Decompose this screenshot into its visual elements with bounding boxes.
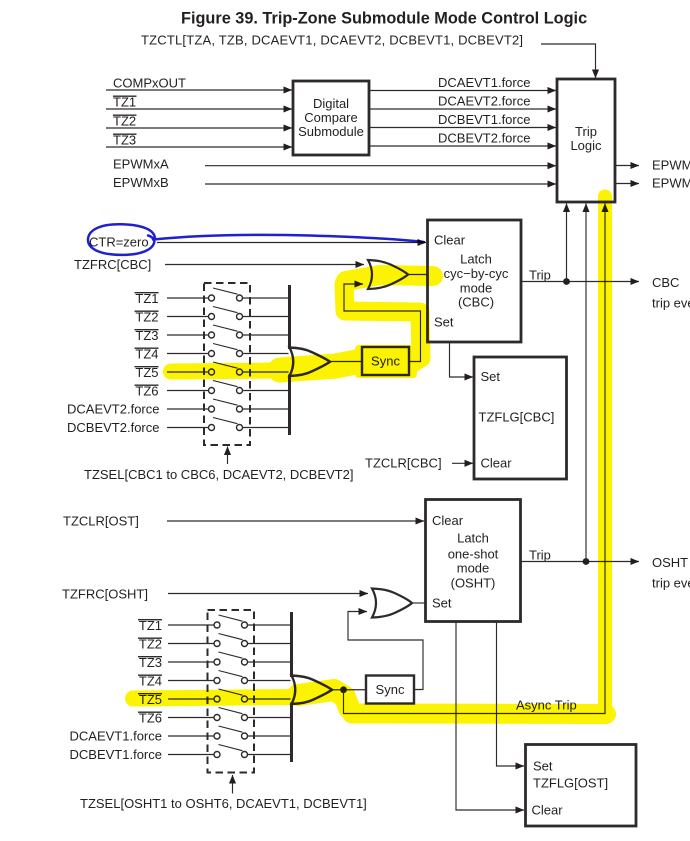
svg-text:Figure 39. Trip-Zone Submodule: Figure 39. Trip-Zone Submodule Mode Cont… (181, 10, 587, 28)
wire DCAEVT2.force (369, 108, 556, 110)
switch CBC TZ5 (167, 362, 289, 375)
highlight CBC OR gate through-path (280, 362, 356, 370)
label TZ1 cbc (135, 291, 159, 306)
label TZ2 osht (138, 636, 162, 651)
switch OSHT TZ4 (168, 671, 291, 684)
svg-text:trip event: trip event (652, 576, 690, 591)
wire TZ2 in (106, 127, 292, 129)
label CBC trip event (652, 275, 690, 311)
svg-text:one-shot: one-shot (448, 547, 499, 562)
bus CBC input bar lower (288, 375, 291, 436)
highlight OSHT gate junction blob (298, 690, 349, 708)
switch CBC DCBEVT-force (167, 418, 289, 431)
label TZ3 in (113, 132, 137, 147)
wire COMPxOUT (106, 89, 292, 91)
label TZ4 osht (138, 673, 162, 688)
svg-text:mode: mode (460, 281, 493, 296)
svg-text:Compare: Compare (304, 110, 357, 125)
switch CBC TZ4 (167, 344, 289, 357)
label TZ1 osht (138, 618, 162, 633)
wire TZCLR[CBC] (452, 462, 473, 464)
switch OSHT TZ3 (168, 652, 291, 665)
svg-text:Clear: Clear (434, 233, 466, 248)
wire EPWMxB in (205, 183, 556, 185)
wire EPWMxA out (615, 165, 639, 167)
wire OSHT sync feedback (348, 612, 423, 690)
label TZ1 in (113, 94, 137, 109)
block Trip Logic (557, 79, 615, 202)
svg-text:TZSEL[OSHT1 to OSHT6, DCAEVT1,: TZSEL[OSHT1 to OSHT6, DCAEVT1, DCBEVT1] (80, 796, 367, 811)
svg-text:Set: Set (434, 315, 454, 330)
pen ellipse around CTR=zero (88, 224, 155, 255)
highlight async trip vertical right side (598, 197, 612, 707)
highlight CBC TZ5 row (171, 371, 282, 372)
label TZ4 cbc (135, 346, 159, 361)
svg-text:Clear: Clear (481, 456, 513, 471)
wire OSHT trip to Trip Logic (585, 204, 587, 562)
svg-text:EPWMxB: EPWMxB (652, 176, 690, 191)
svg-text:DCAEVT2.force: DCAEVT2.force (67, 401, 159, 416)
node OSHT trip junction (583, 558, 590, 565)
label TZ2 cbc (135, 309, 159, 324)
label TZ3 osht (138, 655, 162, 670)
or-gate CBC force/sync (368, 260, 408, 289)
svg-text:TZCLR[CBC]: TZCLR[CBC] (365, 456, 442, 471)
svg-text:CTR=zero: CTR=zero (89, 235, 149, 250)
svg-text:CBC: CBC (652, 275, 679, 290)
wire TZ1 in (106, 108, 292, 110)
label TZ2 in (113, 113, 137, 128)
highlight CBC sync feedback up-path (344, 284, 421, 363)
svg-text:DCBEVT1.force: DCBEVT1.force (70, 747, 162, 762)
block Sync OSHT (366, 676, 414, 704)
svg-text:mode: mode (457, 561, 490, 576)
wire DCBEVT1.force (369, 127, 556, 129)
label TZ6 cbc (135, 383, 159, 398)
svg-text:Trip: Trip (529, 548, 551, 563)
label TZ6 osht (138, 710, 162, 725)
switch OSHT DCBEVT-force (168, 745, 291, 758)
svg-text:Latch: Latch (457, 531, 489, 546)
switch CBC DCAEVT-force (167, 399, 289, 412)
svg-text:TZFLG[OST]: TZFLG[OST] (533, 775, 608, 790)
wire CTR=zero to CBC latch Clear (157, 242, 426, 244)
switch OSHT DCAEVT-force (168, 726, 291, 739)
node CBC trip junction (563, 278, 570, 285)
switch OSHT TZ6 (168, 708, 291, 721)
svg-text:OSHT: OSHT (652, 555, 688, 570)
svg-text:trip event: trip event (652, 296, 690, 311)
svg-text:DCBEVT1.force: DCBEVT1.force (438, 112, 530, 127)
svg-text:EPWMxB: EPWMxB (113, 175, 169, 190)
bus OSHT input bar upper (290, 612, 293, 677)
wire TZSEL OSHT select arrow (232, 775, 234, 794)
wire DCBEVT2.force (369, 145, 556, 147)
highlight CBC small OR gate output (346, 275, 433, 281)
svg-text:Set: Set (432, 596, 452, 611)
wire OSHT gate to Sync (332, 689, 366, 691)
highlight OSHT TZ5 row (133, 697, 300, 699)
wire TZCLR[OST] to OSHT latch (167, 520, 424, 522)
svg-text:(OSHT): (OSHT) (451, 576, 496, 591)
wire CBC or-gate to latch (408, 274, 428, 276)
svg-text:TZCTL[TZA, TZB, DCAEVT1, DCAEV: TZCTL[TZA, TZB, DCAEVT1, DCAEVT2, DCBEVT… (141, 33, 523, 48)
bus CBC input bar upper (288, 285, 291, 349)
svg-text:EPWMxA: EPWMxA (113, 157, 169, 172)
switch CBC TZ6 (167, 381, 289, 394)
svg-text:COMPxOUT: COMPxOUT (113, 76, 186, 91)
svg-text:cyc−by-cyc: cyc−by-cyc (444, 266, 509, 281)
block TZFLG[CBC] (474, 357, 567, 479)
wire CBC sync feedback (344, 284, 421, 362)
svg-text:EPWMxA: EPWMxA (652, 158, 690, 173)
block TZFLG[OST] (526, 745, 637, 827)
wire TZFRC[CBC] to OR gate (165, 264, 364, 266)
or-gate CBC main (290, 348, 331, 377)
svg-text:DCBEVT2.force: DCBEVT2.force (67, 420, 159, 435)
label TZ5 osht (138, 692, 162, 707)
wire CBC latch Set to TZFLG (450, 342, 474, 377)
svg-text:Latch: Latch (460, 252, 492, 267)
wire EPWMxA in (205, 165, 556, 167)
svg-text:Set: Set (481, 369, 501, 384)
or-gate OSHT main (292, 676, 333, 705)
svg-text:TZSEL[CBC1 to CBC6, DCAEVT2, D: TZSEL[CBC1 to CBC6, DCAEVT2, DCBEVT2] (84, 467, 353, 482)
svg-text:Trip: Trip (529, 268, 551, 283)
label TZ3 cbc (135, 328, 159, 343)
switch CBC TZ3 (167, 325, 289, 338)
wire async trip (344, 204, 606, 714)
label TZ5 cbc (135, 365, 159, 380)
wire OSHT or-gate to latch (412, 602, 426, 604)
highlight async trip horizontal (352, 704, 606, 725)
wire DCAEVT1.force (369, 90, 556, 92)
wire EPWMxB out (615, 183, 639, 185)
wire CBC gate to Sync (330, 361, 362, 363)
block Sync CBC (362, 347, 409, 375)
wire TZSEL CBC select arrow (227, 447, 229, 465)
svg-text:DCBEVT2.force: DCBEVT2.force (438, 131, 530, 146)
svg-text:Clear: Clear (532, 802, 564, 817)
svg-text:TZFLG[CBC]: TZFLG[CBC] (479, 410, 555, 425)
or-gate OSHT force/sync (372, 589, 412, 618)
switchbank OSHT box (208, 610, 255, 773)
svg-text:TZCLR[OST]: TZCLR[OST] (63, 513, 139, 528)
wire CBC trip to Trip Logic (566, 204, 568, 282)
svg-text:Submodule: Submodule (298, 124, 364, 139)
svg-text:DCAEVT2.force: DCAEVT2.force (438, 94, 530, 109)
block Digital Compare Submodule (293, 81, 369, 155)
switch OSHT TZ2 (168, 634, 291, 647)
svg-text:Trip: Trip (575, 124, 597, 139)
bus OSHT input bar lower (290, 703, 293, 763)
switch CBC TZ1 (167, 288, 289, 301)
wire Trip CBC out (521, 281, 639, 283)
pen line CTR=zero to latch (153, 235, 424, 242)
svg-text:TZFRC[OSHT]: TZFRC[OSHT] (62, 586, 148, 601)
label OSHT trip event (652, 555, 690, 591)
wire TZCTL to Trip Logic (541, 44, 596, 78)
svg-text:Clear: Clear (432, 513, 464, 528)
svg-text:Digital: Digital (313, 96, 349, 111)
svg-text:TZFRC[CBC]: TZFRC[CBC] (74, 257, 151, 272)
latch OSHT block (426, 500, 521, 622)
svg-text:DCAEVT1.force: DCAEVT1.force (70, 728, 162, 743)
switch OSHT TZ5 (168, 689, 291, 702)
svg-text:Sync: Sync (376, 682, 405, 697)
latch CBC block (428, 220, 522, 342)
wire TZ3 in (106, 146, 292, 148)
svg-text:Logic: Logic (570, 138, 602, 153)
switch OSHT TZ1 (168, 615, 291, 628)
svg-text:(CBC): (CBC) (458, 295, 494, 310)
wire OSHT latch to TZFLG clear (456, 622, 524, 811)
svg-text:DCAEVT1.force: DCAEVT1.force (438, 75, 530, 90)
svg-text:Set: Set (533, 758, 553, 773)
wire Trip OSHT out (521, 561, 640, 563)
switch CBC TZ2 (167, 307, 289, 320)
wire OSHT latch to TZFLG set (497, 622, 525, 767)
node OSHT gate junction (340, 686, 347, 693)
switchbank CBC box (204, 283, 250, 445)
wire TZFRC[OSHT] to OR gate (168, 593, 368, 595)
highlight CBC Sync box (355, 345, 417, 378)
